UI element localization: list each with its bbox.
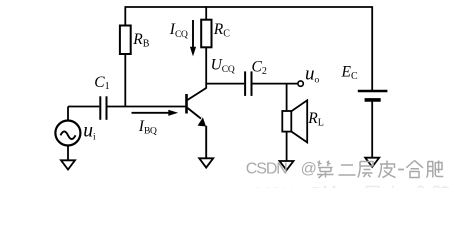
svg-text:ICQ: ICQ [169, 21, 188, 40]
svg-text:RB: RB [132, 31, 149, 49]
svg-text:EC: EC [341, 64, 358, 82]
svg-text:RC: RC [213, 21, 230, 39]
svg-text:ui: ui [83, 121, 96, 143]
svg-text:C2: C2 [252, 59, 267, 77]
svg-text:@: @ [301, 161, 317, 178]
svg-text:IBQ: IBQ [138, 118, 157, 137]
svg-text:C1: C1 [94, 74, 109, 92]
svg-text:uo: uo [305, 64, 320, 86]
svg-text:RL: RL [307, 110, 324, 128]
svg-text:CSDN: CSDN [246, 161, 287, 178]
svg-text:UCQ: UCQ [211, 56, 235, 75]
